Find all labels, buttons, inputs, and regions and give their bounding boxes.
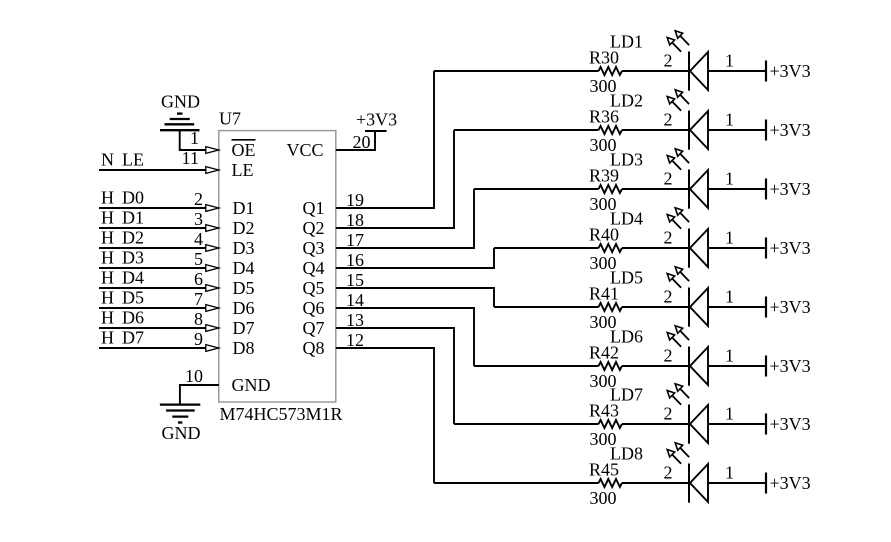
- svg-text:OE: OE: [232, 140, 256, 160]
- wire resistor R42 to LED LD6 pin 2: [622, 365, 689, 367]
- pin number 1: [190, 128, 199, 148]
- net label H_D5: [101, 288, 144, 308]
- LED LD6 light arrow b: [675, 326, 689, 340]
- svg-text:GND: GND: [162, 423, 201, 443]
- power symbol +3V3 row 7: [766, 414, 811, 435]
- net label H_D6: [101, 308, 144, 328]
- svg-text:Q7: Q7: [303, 318, 325, 338]
- power symbol +3V3 row 4: [766, 238, 811, 259]
- pin number 17: [346, 230, 364, 250]
- svg-text:19: 19: [346, 190, 364, 210]
- svg-text:Q3: Q3: [303, 238, 325, 258]
- pin number 1: [725, 228, 734, 248]
- wire Q2 (pin 18) route to row 2: [336, 130, 454, 228]
- pin name D2: [233, 218, 255, 238]
- LED LD5 (diode, cathode bar + triangle): [689, 288, 708, 327]
- svg-text:17: 17: [346, 230, 364, 250]
- svg-text:18: 18: [346, 210, 364, 230]
- svg-text:D2: D2: [122, 228, 144, 248]
- pin name D8: [233, 338, 255, 358]
- svg-text:+3V3: +3V3: [770, 61, 811, 81]
- svg-text:1: 1: [190, 128, 199, 148]
- wire LED LD6 pin 1 to +3V3: [708, 365, 766, 367]
- svg-text:4: 4: [194, 229, 203, 249]
- svg-text:1: 1: [725, 169, 734, 189]
- LED reference LD1: [610, 32, 643, 52]
- input buffer arrow pin 7 (D6): [206, 305, 219, 312]
- pin name Q3: [303, 238, 325, 258]
- wire LED LD8 pin 1 to +3V3: [708, 482, 766, 484]
- pin name VCC: [287, 140, 324, 160]
- input buffer arrow pin 1 (OE): [206, 147, 219, 154]
- svg-text:H: H: [101, 188, 114, 208]
- wire H_D6 to pin 8: [99, 327, 206, 329]
- wire LED LD2 pin 1 to +3V3: [708, 129, 766, 131]
- net label H_D4: [101, 268, 144, 288]
- svg-text:N: N: [101, 150, 114, 170]
- svg-text:3: 3: [194, 209, 203, 229]
- svg-text:2: 2: [194, 189, 203, 209]
- wire Q7 (pin 13) route to row 7: [336, 328, 454, 424]
- pin number 2: [664, 169, 673, 189]
- LED LD7 (diode, cathode bar + triangle): [689, 405, 708, 444]
- LED LD4 light arrow b: [675, 208, 689, 222]
- net label H_D3: [101, 248, 144, 268]
- pin number 7: [194, 289, 203, 309]
- ground (top, for OE pin 1): [160, 92, 200, 131]
- svg-text:+3V3: +3V3: [770, 414, 811, 434]
- wire Q1 (pin 19) route to row 1: [336, 71, 434, 208]
- svg-text:H: H: [101, 268, 114, 288]
- svg-text:LD5: LD5: [610, 268, 643, 288]
- LED LD3 light arrow b: [675, 149, 689, 163]
- svg-text:2: 2: [664, 346, 673, 366]
- pin name D4: [233, 258, 255, 278]
- svg-text:+3V3: +3V3: [770, 297, 811, 317]
- wire row 2: vertical to resistor R36: [454, 129, 599, 131]
- op-amp-style IC body U7 (octal latch): [219, 131, 336, 402]
- svg-text:Q6: Q6: [303, 298, 325, 318]
- svg-text:12: 12: [346, 330, 364, 350]
- svg-text:LD2: LD2: [610, 91, 643, 111]
- LED LD6 (diode, cathode bar + triangle): [689, 347, 708, 386]
- svg-text:Q4: Q4: [303, 258, 325, 278]
- resistor R42 300: [589, 343, 622, 392]
- svg-text:2: 2: [664, 404, 673, 424]
- svg-text:Q2: Q2: [303, 218, 325, 238]
- svg-text:D4: D4: [122, 268, 144, 288]
- svg-text:D6: D6: [122, 308, 144, 328]
- svg-text:LD8: LD8: [610, 444, 643, 464]
- wire Q4 (pin 16) route to row 4: [336, 248, 494, 268]
- LED LD2 (diode, cathode bar + triangle): [689, 111, 708, 150]
- pin name Q2: [303, 218, 325, 238]
- wire from top ground to pin 1: [180, 130, 206, 150]
- LED LD4 light arrow a: [667, 215, 681, 229]
- wire resistor R41 to LED LD5 pin 2: [622, 306, 689, 308]
- svg-text:300: 300: [590, 488, 617, 508]
- pin number 12: [346, 330, 364, 350]
- svg-text:15: 15: [346, 270, 364, 290]
- pin number 2: [664, 228, 673, 248]
- resistor R45 300: [589, 460, 622, 509]
- svg-text:1: 1: [725, 463, 734, 483]
- power symbol +3V3 row 8: [766, 473, 811, 494]
- wire row 1: vertical to resistor R30: [434, 70, 599, 72]
- net label H_D1: [101, 208, 144, 228]
- wire row 6: vertical to resistor R42: [474, 365, 599, 367]
- svg-text:LD1: LD1: [610, 32, 643, 52]
- pin name D7: [233, 318, 255, 338]
- wire resistor R40 to LED LD4 pin 2: [622, 247, 689, 249]
- svg-text:20: 20: [353, 132, 371, 152]
- pin number 6: [194, 269, 203, 289]
- svg-text:D4: D4: [233, 258, 255, 278]
- svg-text:1: 1: [725, 404, 734, 424]
- LED reference LD2: [610, 91, 643, 111]
- wire LED LD4 pin 1 to +3V3: [708, 247, 766, 249]
- reference designator U7: [219, 109, 241, 129]
- svg-text:D0: D0: [122, 188, 144, 208]
- power symbol +3V3 row 2: [766, 120, 811, 141]
- power symbol +3V3 row 6: [766, 356, 811, 377]
- pin number 10: [185, 366, 203, 386]
- pin number 2: [664, 404, 673, 424]
- pin number 1: [725, 110, 734, 130]
- power symbol +3V3 row 1: [766, 61, 811, 82]
- svg-text:H: H: [101, 308, 114, 328]
- pin number 2: [664, 110, 673, 130]
- svg-text:D6: D6: [233, 298, 255, 318]
- pin number 9: [194, 329, 203, 349]
- LED LD5 light arrow b: [675, 267, 689, 281]
- svg-text:1: 1: [725, 228, 734, 248]
- svg-text:D2: D2: [233, 218, 255, 238]
- svg-text:1: 1: [725, 346, 734, 366]
- LED LD7 light arrow b: [675, 384, 689, 398]
- svg-text:+3V3: +3V3: [770, 179, 811, 199]
- wire LED LD7 pin 1 to +3V3: [708, 423, 766, 425]
- wire row 5: vertical to resistor R41: [494, 306, 599, 308]
- pin name Q6: [303, 298, 325, 318]
- pin number 2: [664, 346, 673, 366]
- wire resistor R30 to LED LD1 pin 2: [622, 70, 689, 72]
- resistor R43 300: [589, 401, 622, 450]
- svg-text:LE: LE: [232, 160, 254, 180]
- wire VCC pin 20 to +3V3: [336, 131, 375, 150]
- part value M74HC573M1R: [220, 404, 343, 424]
- svg-text:2: 2: [664, 51, 673, 71]
- input buffer arrow pin 4 (D3): [206, 245, 219, 252]
- pin name OE with overline: [232, 140, 256, 160]
- svg-text:D5: D5: [233, 278, 255, 298]
- svg-text:Q1: Q1: [303, 198, 325, 218]
- pin number 1: [725, 404, 734, 424]
- wire row 4: vertical to resistor R40: [494, 247, 599, 249]
- net label H_D2: [101, 228, 144, 248]
- input buffer arrow pin 2 (D1): [206, 205, 219, 212]
- svg-text:+3V3: +3V3: [770, 120, 811, 140]
- LED reference LD8: [610, 444, 643, 464]
- LED LD8 (diode, cathode bar + triangle): [689, 464, 708, 503]
- wire Q6 (pin 14) route to row 6: [336, 308, 474, 366]
- svg-text:U7: U7: [219, 109, 241, 129]
- LED LD1 (diode, cathode bar + triangle): [689, 52, 708, 91]
- svg-text:1: 1: [725, 51, 734, 71]
- LED LD1 light arrow b: [675, 31, 689, 45]
- svg-text:6: 6: [194, 269, 203, 289]
- svg-text:H: H: [101, 288, 114, 308]
- svg-text:2: 2: [664, 228, 673, 248]
- wire LED LD3 pin 1 to +3V3: [708, 188, 766, 190]
- svg-text:D8: D8: [233, 338, 255, 358]
- wire row 7: vertical to resistor R43: [454, 423, 599, 425]
- pin name D5: [233, 278, 255, 298]
- resistor R30 300: [589, 48, 622, 97]
- power symbol +3V3 row 5: [766, 297, 811, 318]
- wire resistor R45 to LED LD8 pin 2: [622, 482, 689, 484]
- pin number 2: [664, 287, 673, 307]
- LED LD7 light arrow a: [667, 391, 681, 405]
- power symbol +3V3 row 3: [766, 179, 811, 200]
- svg-text:D1: D1: [233, 198, 255, 218]
- svg-text:LD6: LD6: [610, 327, 643, 347]
- LED LD2 light arrow a: [667, 97, 681, 111]
- net label H_D0: [101, 188, 144, 208]
- wire H_D3 to pin 5: [99, 267, 206, 269]
- pin number 13: [346, 310, 364, 330]
- svg-text:8: 8: [194, 309, 203, 329]
- svg-text:+3V3: +3V3: [770, 356, 811, 376]
- pin number 14: [346, 290, 364, 310]
- LED LD8 light arrow b: [675, 443, 689, 457]
- LED LD1 light arrow a: [667, 38, 681, 52]
- svg-text:H: H: [101, 328, 114, 348]
- pin number 18: [346, 210, 364, 230]
- pin name Q1: [303, 198, 325, 218]
- pin number 4: [194, 229, 203, 249]
- svg-text:D5: D5: [122, 288, 144, 308]
- LED reference LD6: [610, 327, 643, 347]
- svg-text:GND: GND: [232, 375, 271, 395]
- svg-text:H: H: [101, 208, 114, 228]
- input buffer arrow pin 11 (LE): [206, 167, 219, 174]
- svg-text:1: 1: [725, 110, 734, 130]
- wire H_D4 to pin 6: [99, 287, 206, 289]
- svg-text:Q8: Q8: [303, 338, 325, 358]
- wire H_D2 to pin 4: [99, 247, 206, 249]
- svg-text:2: 2: [664, 169, 673, 189]
- power symbol +3V3 (top): [356, 110, 397, 132]
- pin number 16: [346, 250, 364, 270]
- input buffer arrow pin 5 (D4): [206, 265, 219, 272]
- wire Q5 (pin 15) route to row 5: [336, 288, 494, 307]
- net label H_D7: [101, 328, 144, 348]
- LED reference LD3: [610, 150, 643, 170]
- wire LED LD5 pin 1 to +3V3: [708, 306, 766, 308]
- wire H_D1 to pin 3: [99, 227, 206, 229]
- svg-text:D1: D1: [122, 208, 144, 228]
- wire resistor R39 to LED LD3 pin 2: [622, 188, 689, 190]
- svg-text:+3V3: +3V3: [356, 110, 397, 130]
- pin number 15: [346, 270, 364, 290]
- svg-text:VCC: VCC: [287, 140, 324, 160]
- pin number 2: [194, 189, 203, 209]
- wire pin 10 to bottom ground: [180, 385, 219, 405]
- pin name D3: [233, 238, 255, 258]
- pin name LE: [232, 160, 254, 180]
- wire H_D0 to pin 2: [99, 207, 206, 209]
- wire H_D7 to pin 9: [99, 347, 206, 349]
- pin number 8: [194, 309, 203, 329]
- ground (bottom, for GND pin 10): [160, 405, 201, 443]
- svg-text:H: H: [101, 248, 114, 268]
- pin number 1: [725, 463, 734, 483]
- svg-text:LD3: LD3: [610, 150, 643, 170]
- input buffer arrow pin 3 (D2): [206, 225, 219, 232]
- LED LD6 light arrow a: [667, 333, 681, 347]
- svg-text:2: 2: [664, 287, 673, 307]
- LED reference LD4: [610, 209, 643, 229]
- svg-text:D7: D7: [122, 328, 144, 348]
- wire row 8: vertical to resistor R45: [434, 482, 599, 484]
- svg-text:2: 2: [664, 110, 673, 130]
- svg-text:LD4: LD4: [610, 209, 643, 229]
- pin number 2: [664, 51, 673, 71]
- svg-text:7: 7: [194, 289, 203, 309]
- wire resistor R43 to LED LD7 pin 2: [622, 423, 689, 425]
- svg-text:D7: D7: [233, 318, 255, 338]
- svg-text:D3: D3: [122, 248, 144, 268]
- net label N_LE: [101, 150, 144, 170]
- pin number 1: [725, 51, 734, 71]
- wire N_LE to pin 11: [99, 169, 206, 171]
- LED LD5 light arrow a: [667, 274, 681, 288]
- LED reference LD7: [610, 385, 643, 405]
- pin name Q4: [303, 258, 325, 278]
- input buffer arrow pin 8 (D7): [206, 325, 219, 332]
- pin number 1: [725, 169, 734, 189]
- LED reference LD5: [610, 268, 643, 288]
- pin number 1: [725, 346, 734, 366]
- pin number 2: [664, 463, 673, 483]
- pin number 19: [346, 190, 364, 210]
- wire resistor R36 to LED LD2 pin 2: [622, 129, 689, 131]
- svg-text:D3: D3: [233, 238, 255, 258]
- input buffer arrow pin 9 (D8): [206, 345, 219, 352]
- svg-text:11: 11: [182, 148, 199, 168]
- wire Q3 (pin 17) route to row 3: [336, 189, 474, 248]
- wire H_D5 to pin 7: [99, 307, 206, 309]
- svg-text:5: 5: [194, 249, 203, 269]
- svg-text:+3V3: +3V3: [770, 238, 811, 258]
- pin name D1: [233, 198, 255, 218]
- resistor R36 300: [589, 107, 622, 156]
- resistor R41 300: [589, 284, 622, 333]
- input buffer arrow pin 6 (D5): [206, 285, 219, 292]
- svg-text:2: 2: [664, 463, 673, 483]
- pin number 3: [194, 209, 203, 229]
- svg-text:14: 14: [346, 290, 364, 310]
- svg-text:13: 13: [346, 310, 364, 330]
- pin number 11: [182, 148, 199, 168]
- pin number 20: [353, 132, 371, 152]
- svg-text:+3V3: +3V3: [770, 473, 811, 493]
- svg-text:9: 9: [194, 329, 203, 349]
- resistor R39 300: [589, 166, 622, 215]
- svg-text:16: 16: [346, 250, 364, 270]
- pin number 1: [725, 287, 734, 307]
- LED LD3 (diode, cathode bar + triangle): [689, 170, 708, 209]
- resistor R40 300: [589, 225, 622, 274]
- pin name Q5: [303, 278, 325, 298]
- pin number 5: [194, 249, 203, 269]
- LED LD8 light arrow a: [667, 450, 681, 464]
- wire Q8 (pin 12) route to row 8: [336, 348, 434, 483]
- svg-text:LE: LE: [122, 150, 144, 170]
- svg-text:M74HC573M1R: M74HC573M1R: [220, 404, 343, 424]
- svg-text:Q5: Q5: [303, 278, 325, 298]
- wire LED LD1 pin 1 to +3V3: [708, 70, 766, 72]
- LED LD4 (diode, cathode bar + triangle): [689, 229, 708, 268]
- svg-text:GND: GND: [161, 92, 200, 112]
- svg-text:LD7: LD7: [610, 385, 643, 405]
- pin name GND: [232, 375, 271, 395]
- svg-text:H: H: [101, 228, 114, 248]
- pin name Q7: [303, 318, 325, 338]
- LED LD2 light arrow b: [675, 90, 689, 104]
- pin name Q8: [303, 338, 325, 358]
- svg-text:1: 1: [725, 287, 734, 307]
- pin name D6: [233, 298, 255, 318]
- wire row 3: vertical to resistor R39: [474, 188, 599, 190]
- svg-text:10: 10: [185, 366, 203, 386]
- LED LD3 light arrow a: [667, 156, 681, 170]
